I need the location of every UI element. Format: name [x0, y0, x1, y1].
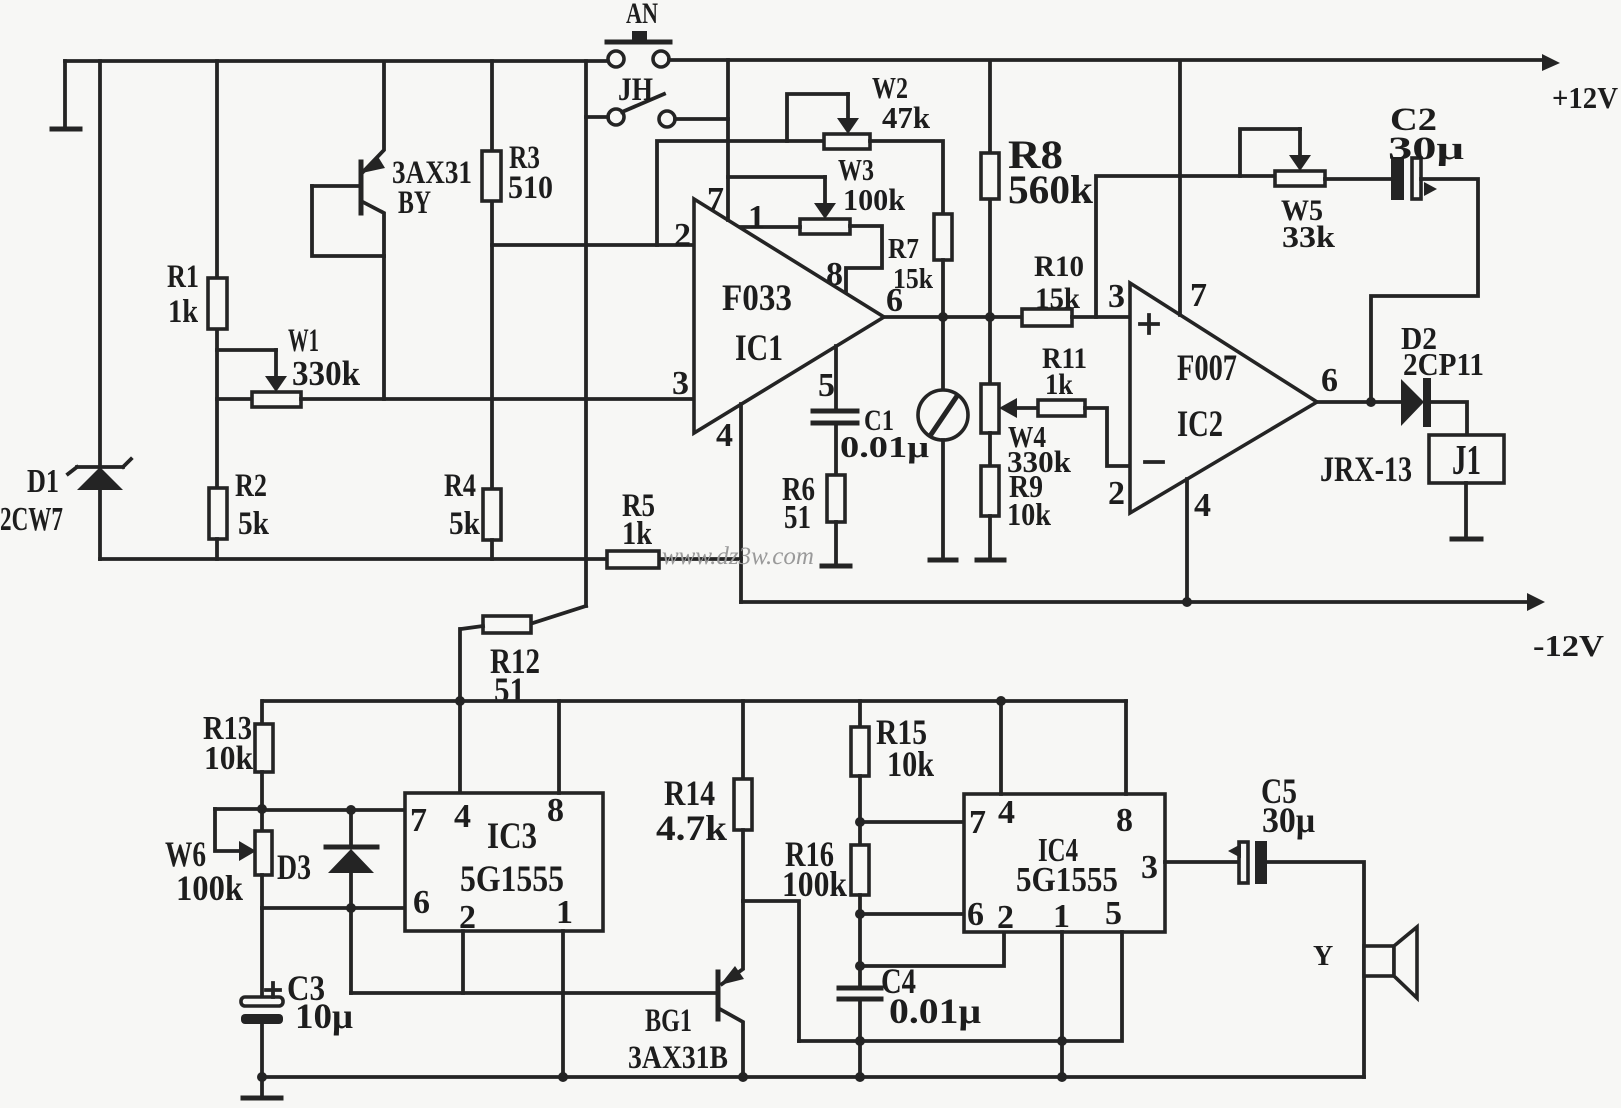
wire: C5 to speaker — [1267, 862, 1364, 1077]
switch JH — [586, 94, 728, 127]
svg-text:3: 3 — [1141, 849, 1158, 886]
potentiometer W6 100k — [255, 831, 272, 908]
resistor R7 15k — [934, 214, 952, 317]
svg-text:D3: D3 — [277, 847, 311, 887]
wire: R11 to IC2 pin2 — [1085, 408, 1130, 466]
svg-text:R14: R14 — [664, 773, 715, 813]
wire: bottom ground rail — [262, 1072, 1364, 1082]
svg-text:R1: R1 — [167, 259, 199, 295]
wire: IC4 pin2 link — [860, 931, 1004, 966]
wire: IC4 pin4 supply — [996, 696, 1006, 794]
relay J1 — [1429, 435, 1504, 539]
wire: IC4 pin7 line — [860, 820, 964, 824]
wire: IC1 pin5 lead — [834, 346, 838, 410]
wire: IC4 pin3 output — [1165, 860, 1240, 864]
svg-text:510: 510 — [508, 170, 553, 206]
resistor R9 10k — [977, 466, 1004, 560]
wire: D3 to trigger line — [349, 908, 353, 993]
svg-text:-12V: -12V — [1533, 628, 1605, 663]
timer IC4 5G1555 — [964, 794, 1165, 932]
svg-text:2CP11: 2CP11 — [1403, 346, 1484, 382]
wire: R3 branch vertical — [490, 61, 494, 489]
svg-text:2: 2 — [997, 899, 1014, 936]
meter M — [918, 317, 968, 560]
svg-text:R10: R10 — [1034, 250, 1084, 283]
resistor R10 15k — [1022, 309, 1130, 326]
svg-text:J1: J1 — [1452, 438, 1481, 484]
svg-text:6: 6 — [886, 282, 903, 319]
potentiometer W3 wiper bracket — [728, 177, 836, 219]
wire: IC4 pin1 ground drop — [1057, 932, 1067, 1077]
op-amp IC1 F033 — [694, 199, 884, 433]
resistor R12 51 — [461, 606, 586, 633]
capacitor C4 0.01u — [839, 988, 881, 1077]
svg-text:IC3: IC3 — [487, 816, 537, 857]
capacitor C1 0.01u — [813, 411, 857, 475]
resistor R15 10k — [851, 701, 869, 845]
svg-text:R2: R2 — [235, 468, 267, 504]
resistor R2 — [209, 488, 227, 559]
potentiometer W1 330k — [217, 392, 301, 407]
svg-text:5G1555: 5G1555 — [1016, 860, 1118, 899]
svg-text:47k: 47k — [882, 100, 931, 135]
svg-text:10μ: 10μ — [295, 996, 353, 1036]
svg-text:1: 1 — [556, 894, 573, 931]
wire: trigger line to BG1 base — [351, 991, 716, 995]
svg-text:5: 5 — [1105, 895, 1122, 932]
wire: W2 to R7 — [870, 141, 943, 214]
svg-text:30μ: 30μ — [1262, 800, 1315, 840]
capacitor C5 30u — [1228, 841, 1267, 884]
wire: IC3 pin2 drop — [461, 931, 465, 993]
resistor R16 100k — [851, 845, 869, 987]
svg-text:5: 5 — [818, 367, 835, 404]
wire: feedback riser to pin3 node — [1096, 176, 1275, 317]
svg-text:4: 4 — [1194, 487, 1211, 524]
svg-text:JH: JH — [618, 72, 653, 108]
IC2 minus input mark — [1145, 460, 1163, 464]
wire: IC4 pin5 drop — [1062, 932, 1122, 1041]
zener diode D1 2CW7 — [68, 61, 131, 559]
wire: IC2 pin4 to -12V — [1182, 479, 1192, 607]
pushbutton AN — [607, 31, 670, 67]
wire: lower-left common rail — [100, 557, 741, 561]
svg-text:0.01μ: 0.01μ — [889, 991, 981, 1031]
svg-text:30μ: 30μ — [1388, 131, 1464, 167]
svg-text:0.01μ: 0.01μ — [840, 429, 930, 464]
svg-text:BG1: BG1 — [645, 1003, 692, 1039]
wire: IC3 pin1 ground drop — [561, 931, 565, 1077]
svg-text:2CW7: 2CW7 — [0, 501, 63, 538]
svg-text:4: 4 — [998, 794, 1015, 831]
potentiometer W6 wiper bracket — [215, 809, 262, 861]
wire: pin-2 input wire (R3 to IC1) — [492, 243, 694, 247]
svg-text:33k: 33k — [1282, 219, 1336, 254]
wire: R1 branch vertical — [215, 61, 219, 489]
resistor R14 4.7k — [734, 701, 752, 901]
wire: IC3 pin7 line — [262, 805, 405, 815]
svg-text:100k: 100k — [782, 864, 847, 904]
op-amp IC2 F007 — [1130, 283, 1317, 513]
wire: control line to emitter node — [799, 1039, 1062, 1043]
svg-text:6: 6 — [967, 896, 984, 933]
IC2 plus input mark — [1140, 315, 1158, 333]
svg-text:5k: 5k — [449, 506, 481, 542]
C3 plus mark — [266, 983, 280, 997]
wire: IC2 output pin6 — [1317, 400, 1401, 404]
wire: IC4 pin8 supply corner — [1124, 701, 1128, 794]
svg-text:7: 7 — [969, 804, 986, 841]
svg-text:1: 1 — [1053, 898, 1070, 935]
svg-text:4: 4 — [716, 417, 733, 454]
potentiometer W5 wiper bracket — [1240, 129, 1311, 176]
svg-text:IC1: IC1 — [735, 328, 783, 369]
wire: +12V rail left segment — [65, 59, 607, 63]
potentiometer W3 100k — [800, 219, 850, 234]
svg-text:D1: D1 — [27, 463, 59, 500]
svg-text:2: 2 — [1108, 475, 1125, 512]
svg-text:100k: 100k — [843, 182, 906, 217]
capacitor C3 10u — [241, 908, 283, 1082]
svg-text:BY: BY — [398, 185, 431, 221]
resistor R8 560k — [981, 153, 999, 199]
svg-text:5k: 5k — [238, 506, 270, 542]
transistor BG1 3AX31B — [718, 901, 744, 1077]
svg-text:4.7k: 4.7k — [656, 808, 727, 848]
potentiometer W2 wiper bracket — [787, 94, 859, 141]
wire: IC1 pin4 to -12V corner — [739, 404, 743, 602]
svg-text:330k: 330k — [292, 354, 361, 393]
ground (below C3) — [243, 1077, 281, 1098]
svg-text:10k: 10k — [204, 740, 253, 777]
diode D3 — [326, 810, 377, 908]
wire: IC1 output node — [884, 312, 1022, 322]
svg-text:15k: 15k — [1035, 282, 1080, 315]
svg-text:51: 51 — [494, 670, 525, 710]
svg-text:1k: 1k — [168, 294, 199, 330]
resistor R5 1k — [607, 551, 659, 568]
svg-text:www.dz3w.com: www.dz3w.com — [662, 543, 814, 570]
wire: IC1 pin7 supply — [726, 60, 730, 220]
svg-text:6: 6 — [1321, 362, 1338, 399]
svg-text:1k: 1k — [1045, 368, 1073, 401]
wire: BG1 emitter bypass to pin5 line — [743, 901, 799, 1041]
potentiometer W1 wiper bracket — [217, 350, 287, 392]
svg-text:F033: F033 — [722, 278, 792, 319]
svg-text:3AX31B: 3AX31B — [628, 1040, 728, 1076]
timer IC3 5G1555 — [405, 793, 603, 931]
svg-text:51: 51 — [784, 499, 811, 536]
wire: W2 branch riser — [657, 141, 824, 245]
wire: -12V rail — [741, 593, 1545, 611]
ground (top left) — [52, 61, 80, 129]
speaker Y — [1364, 927, 1417, 998]
wire: IC3 pin6 line — [262, 903, 405, 913]
resistor R4 — [483, 489, 501, 559]
wire: W3 right terminal to IC1 pin8 — [846, 226, 882, 293]
potentiometer W2 47k — [824, 134, 870, 149]
svg-text:F007: F007 — [1177, 348, 1237, 389]
diode D2 2CP11 — [1401, 378, 1467, 435]
svg-text:10k: 10k — [887, 744, 934, 784]
capacitor C2 30u — [1391, 157, 1437, 200]
resistor R11 1k — [1038, 400, 1085, 416]
wire: bottom V+ distribution rail — [263, 699, 1126, 703]
transistor 3AX31 BY — [312, 62, 385, 399]
svg-text:560k: 560k — [1008, 167, 1094, 212]
svg-text:AN: AN — [626, 0, 658, 30]
wire: IC2 pin7 supply — [1178, 61, 1182, 315]
wire: C2 to D2 anode loop — [1366, 179, 1478, 407]
resistor R6 51 — [822, 475, 850, 566]
svg-text:3: 3 — [672, 365, 689, 402]
potentiometer W4 330k — [981, 317, 999, 466]
svg-text:4: 4 — [454, 798, 471, 835]
svg-text:R4: R4 — [444, 468, 476, 504]
wire: +12V rail right segment — [669, 54, 1560, 71]
svg-text:100k: 100k — [176, 868, 243, 908]
svg-text:7: 7 — [410, 802, 427, 839]
wire: IC3 pin8 supply — [557, 701, 561, 793]
resistor R1 — [208, 278, 227, 329]
svg-text:3: 3 — [1108, 278, 1125, 315]
svg-text:R7: R7 — [888, 233, 919, 265]
wire: R12 to IC3 pin4 vertical — [455, 629, 465, 793]
wire: AN/JH left feed vertical — [584, 61, 588, 606]
resistor R13 10k — [255, 701, 273, 831]
wire: R8 branch — [988, 61, 992, 317]
svg-text:10k: 10k — [1007, 496, 1051, 532]
W4 wiper arrow — [999, 398, 1038, 418]
svg-text:JRX-13: JRX-13 — [1320, 449, 1412, 489]
svg-text:6: 6 — [413, 884, 430, 921]
wire: IC4 pin6 line — [860, 912, 964, 916]
svg-text:5G1555: 5G1555 — [460, 859, 564, 900]
svg-text:2: 2 — [674, 217, 691, 254]
svg-text:7: 7 — [1190, 277, 1207, 314]
svg-text:IC2: IC2 — [1177, 404, 1223, 445]
svg-text:8: 8 — [1116, 802, 1133, 839]
wire: pin-3 input wire (W1 wiper line to IC1) — [301, 397, 694, 401]
wire: IC1 pin1 stub — [739, 225, 800, 229]
svg-text:Y: Y — [1313, 941, 1333, 972]
potentiometer W5 33k — [1275, 171, 1391, 186]
svg-text:8: 8 — [547, 792, 564, 829]
svg-text:+12V: +12V — [1552, 80, 1619, 115]
resistor R3 — [482, 151, 501, 201]
svg-text:1k: 1k — [622, 516, 653, 552]
svg-text:1: 1 — [748, 199, 765, 236]
svg-text:7: 7 — [707, 181, 724, 218]
